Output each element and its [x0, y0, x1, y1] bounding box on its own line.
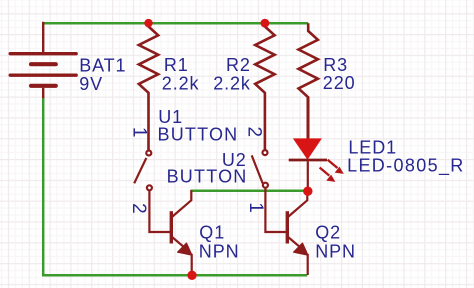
button U2: [252, 150, 268, 188]
wire left+bottom rail: [43, 97, 307, 276]
junction dot R1/top rail: [144, 19, 152, 27]
pin 2 terminal (top): [263, 150, 268, 155]
svg-text:Q2: Q2: [315, 223, 341, 243]
resistor R1: [139, 23, 158, 149]
lever: [252, 155, 263, 183]
pin 1 terminal: [146, 151, 151, 156]
collector: [287, 193, 307, 218]
svg-text:R1: R1: [164, 55, 189, 75]
junction dot R2/top rail: [261, 19, 270, 28]
svg-text:2.2k: 2.2k: [213, 73, 251, 93]
battery BAT1: [10, 22, 76, 98]
emitter: [287, 236, 302, 249]
Q2 emitter arrow: [294, 243, 308, 255]
base lead from U2: [265, 188, 286, 232]
svg-text:9V: 9V: [79, 74, 103, 94]
svg-text:NPN: NPN: [199, 241, 240, 261]
transistor Q1: [149, 190, 191, 275]
anode lead: [306, 97, 309, 139]
svg-text:BUTTON: BUTTON: [167, 167, 248, 187]
cathode lead: [307, 161, 309, 187]
lever: [134, 158, 146, 183]
junction dot LED/mid rail: [303, 187, 312, 196]
svg-text:Q1: Q1: [199, 223, 225, 243]
base bar: [170, 211, 173, 243]
svg-text:NPN: NPN: [315, 241, 356, 261]
svg-text:BUTTON: BUTTON: [158, 124, 239, 144]
cathode bar: [289, 159, 327, 162]
svg-text:2: 2: [244, 126, 265, 137]
wire mid (Q1 collector to LED junction): [190, 190, 304, 193]
transistor Q2: [265, 188, 307, 275]
svg-text:BAT1: BAT1: [79, 55, 126, 75]
svg-text:R2: R2: [226, 55, 251, 75]
svg-text:2: 2: [128, 203, 149, 214]
emitter: [171, 236, 186, 249]
resistor R3: [299, 23, 318, 138]
pin 2 terminal: [147, 185, 152, 190]
junction dot Q1 emitter/bottom rail: [187, 271, 196, 280]
svg-text:1: 1: [245, 202, 266, 213]
svg-text:2.2k: 2.2k: [162, 73, 200, 93]
svg-text:LED-0805_R: LED-0805_R: [347, 156, 465, 177]
Q1 emitter arrow: [178, 243, 192, 255]
pin 1 terminal (bottom): [263, 183, 268, 188]
button U1: [134, 151, 152, 191]
light arrow 1: [328, 160, 338, 168]
svg-text:220: 220: [323, 73, 356, 93]
svg-text:LED1: LED1: [348, 137, 397, 157]
light arrow 2: [320, 168, 330, 176]
collector: [171, 190, 191, 217]
base bar: [286, 211, 289, 243]
base lead from U1: [149, 191, 170, 232]
LED LED1: [289, 97, 344, 187]
resistor R2: [255, 23, 274, 150]
svg-text:1: 1: [128, 127, 149, 138]
triangle: [294, 139, 320, 158]
wire top rail: [43, 22, 308, 25]
